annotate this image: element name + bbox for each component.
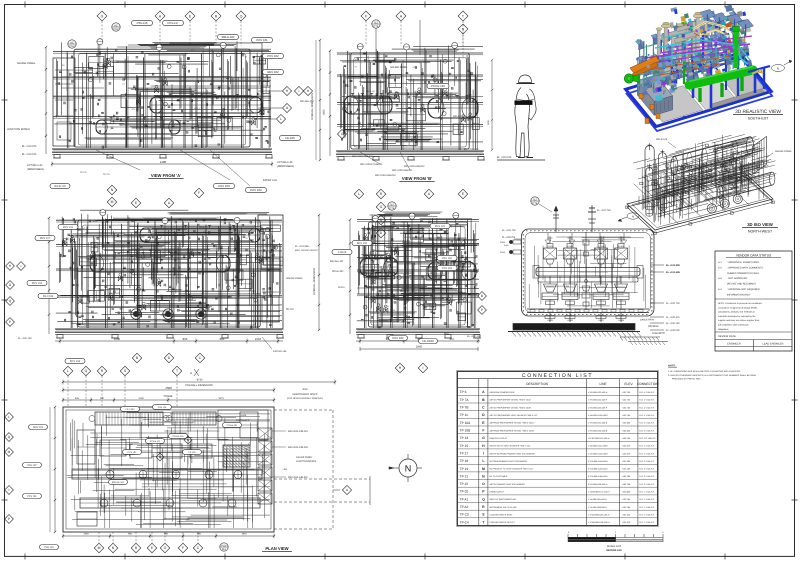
svg-text:PCV 1: PCV 1	[131, 108, 136, 111]
svg-text:TP 13: TP 13	[460, 436, 469, 440]
plan view: small callouts inside	[109, 405, 242, 485]
plan view: bottom diamonds	[94, 532, 203, 553]
svg-text:O: O	[286, 106, 289, 110]
svg-text:N2 FROM PRIMARY HEAT EXCHANGER: N2 FROM PRIMARY HEAT EXCHANGER	[490, 460, 528, 463]
svg-text:FLG. 1/2" 150# R.F.: FLG. 1/2" 150# R.F.	[639, 437, 656, 440]
ground line under figure	[497, 159, 545, 161]
svg-text:CONNECTION: CONNECTION	[637, 382, 659, 386]
section view: enclosure frame (double rounded rect)	[522, 229, 655, 316]
plan view: leader lines from top diamonds	[68, 376, 177, 406]
svg-text:VENDOR DATA STATUS: VENDOR DATA STATUS	[736, 253, 771, 257]
view A front elevation: flanges and fittings	[58, 49, 269, 148]
view A: top callout pills	[132, 20, 301, 140]
svg-text:CONCRETE: CONCRETE	[652, 332, 665, 335]
svg-text:PCV 103: PCV 103	[218, 184, 230, 188]
svg-text:N: N	[777, 67, 779, 71]
svg-text:PLAN VIEW: PLAN VIEW	[265, 546, 288, 551]
svg-text:PSV 107: PSV 107	[27, 464, 37, 467]
svg-text:4"-PA-900-1132-A03-B: 4"-PA-900-1132-A03-B	[588, 429, 608, 432]
svg-text:NORTH-WEST: NORTH-WEST	[748, 230, 773, 234]
3D ISO view: labels	[656, 138, 793, 190]
svg-text:1"-IA-900-1182-A03-H: 1"-IA-900-1182-A03-H	[588, 506, 607, 509]
plan view: left margin diamonds	[5, 413, 14, 524]
svg-text:N: N	[405, 464, 412, 474]
3D ISO view: base frame	[626, 173, 775, 234]
svg-text:C: C	[197, 546, 200, 550]
svg-text:N: N	[112, 546, 115, 550]
view B side elevation: title	[399, 176, 434, 181]
svg-text:M: M	[482, 467, 485, 471]
view A: right margin labels and lugs	[263, 161, 294, 182]
svg-text:900-P-103: 900-P-103	[656, 138, 668, 141]
svg-text:1910: 1910	[241, 533, 247, 536]
svg-text:FCV 103: FCV 103	[442, 267, 452, 270]
vendor data status box: note paragraph	[715, 299, 792, 331]
svg-text:TP A2: TP A2	[460, 505, 469, 509]
svg-text:EL.+101,985 -: EL.+101,985 -	[295, 245, 310, 248]
svg-text:PDUm-102: PDUm-102	[332, 270, 344, 273]
svg-text:materials developed or selecte: materials developed or selected by the	[718, 315, 756, 318]
3D realistic view: dense equipment mosaic mass	[642, 4, 752, 101]
svg-text:L: L	[358, 192, 360, 196]
svg-text:REV 102: REV 102	[267, 70, 279, 74]
svg-text:A: A	[346, 488, 349, 492]
svg-text:M: M	[98, 546, 101, 550]
view B: bottom cable labels	[360, 152, 425, 177]
section view: bottom stems and tags	[545, 313, 626, 323]
svg-text:A-3: A-3	[718, 277, 722, 280]
svg-text:M: M	[8, 450, 11, 454]
svg-text:900-U100-ETUB-001: 900-U100-ETUB-001	[352, 155, 373, 158]
svg-text:900: 900	[128, 533, 133, 536]
svg-text:I: I	[21, 264, 22, 268]
svg-text:: APPROVAL NOT REQUIRED.: : APPROVAL NOT REQUIRED.	[727, 288, 761, 291]
svg-text:900-E-103: 900-E-103	[453, 115, 465, 118]
svg-text:H: H	[307, 89, 310, 93]
view A front elevation: skid base	[52, 149, 273, 158]
svg-text:T: T	[462, 14, 465, 18]
svg-text:T: T	[176, 369, 178, 373]
section view: right band annotations	[640, 319, 665, 336]
grid marker diamonds above view A	[97, 11, 468, 59]
svg-text:900-U100-CJB-002: 900-U100-CJB-002	[288, 446, 309, 449]
view A front elevation: structural frame	[53, 46, 271, 148]
svg-text:PI: PI	[245, 55, 247, 58]
svg-text:R: R	[482, 505, 485, 509]
svg-text:1/2"-RG-900-1151-A03-H: 1/2"-RG-900-1151-A03-H	[588, 437, 610, 440]
svg-text:FE-101: FE-101	[188, 451, 196, 454]
vendor data status box: header	[726, 253, 781, 257]
plan view: left callout pills	[23, 425, 59, 550]
3D ISO view: mini north sketch	[618, 213, 639, 222]
svg-text:2: 2	[615, 531, 617, 534]
svg-text:3600: 3600	[323, 109, 326, 115]
svg-text:A: A	[428, 192, 431, 196]
svg-text:FT: FT	[355, 65, 358, 68]
svg-text:900-P: 900-P	[199, 226, 205, 229]
middle-left: bottom diamonds B D C	[132, 353, 205, 363]
svg-text:N2 TO CUSTOMER: N2 TO CUSTOMER	[490, 475, 508, 478]
svg-text:2"-GN-900-1145-A03-H: 2"-GN-900-1145-A03-H	[588, 468, 608, 471]
svg-text:E: E	[135, 201, 138, 205]
svg-text:PCx 104: PCx 104	[442, 257, 452, 260]
svg-text:G: G	[380, 205, 383, 209]
svg-text:1660: 1660	[114, 337, 121, 341]
view B side elevation: structural frame	[337, 51, 483, 150]
svg-text:FE-C103: FE-C103	[43, 295, 54, 298]
svg-text:+102.180: +102.180	[622, 498, 631, 501]
plan view: maintenance space dashed boundary	[274, 410, 370, 529]
svg-text:PG: PG	[62, 64, 65, 67]
svg-text:900-E-101: 900-E-101	[366, 90, 375, 93]
svg-text:900-E-101: 900-E-101	[427, 266, 436, 269]
svg-text:1220: 1220	[83, 533, 89, 536]
svg-text:4"-WN-900-1134-A03-P: 4"-WN-900-1134-A03-P	[588, 414, 609, 417]
svg-text:2"-GN-900-1146-A03-H: 2"-GN-900-1146-A03-H	[588, 475, 608, 478]
svg-text:TP 7A: TP 7A	[460, 398, 470, 402]
middle-center elevation (view D): vessel 1	[360, 256, 398, 277]
svg-text:PDUm-116: PDUm-116	[173, 435, 184, 438]
svg-text:S: S	[462, 27, 465, 31]
svg-text:EL.+102.750: EL.+102.750	[597, 209, 611, 212]
3D ISO view: piping lattice	[633, 134, 776, 224]
view B side elevation: left vertical dimension chain	[329, 50, 331, 156]
svg-text:EL.+100.370: EL.+100.370	[22, 145, 37, 148]
svg-text:FLG. 1" 150# R.F.: FLG. 1" 150# R.F.	[639, 506, 655, 509]
vendor data status box: frame	[715, 251, 792, 351]
svg-text:PCV 1: PCV 1	[194, 107, 199, 110]
svg-text:G: G	[482, 436, 485, 440]
svg-text:TP 18: TP 18	[460, 459, 469, 463]
svg-text:2. UNLESS OTHERWISE INDICATED: 2. UNLESS OTHERWISE INDICATED, ALL INSTR…	[668, 374, 757, 377]
view A: left margin labels	[7, 62, 44, 171]
svg-text:TET: TET	[374, 21, 379, 24]
middle-center elevation (view D): dimension line	[356, 337, 480, 344]
svg-text:PCV 1: PCV 1	[470, 115, 475, 118]
svg-text:PCV 104: PCV 104	[32, 282, 43, 285]
svg-text:FLG. 2" 150# R.F.: FLG. 2" 150# R.F.	[639, 460, 655, 463]
plan view: main header bands	[72, 470, 262, 508]
svg-text:P: P	[481, 308, 483, 312]
svg-text:AIR FROM PREPURIFIER VESSEL "9: AIR FROM PREPURIFIER VESSEL "900-D-101B"	[490, 429, 535, 432]
svg-text:EL.+100.750: EL.+100.750	[502, 236, 516, 239]
svg-text:PDV 107: PDV 107	[40, 237, 51, 240]
svg-text:BOLT: BOLT	[444, 332, 450, 335]
svg-text:PSV-116: PSV-116	[137, 21, 148, 25]
svg-text:GAUGE PANEL: GAUGE PANEL	[296, 456, 313, 459]
view A front elevation: micro tag labels	[62, 48, 267, 135]
svg-text:FLG. 1" 150# R.F.: FLG. 1" 150# R.F.	[639, 514, 655, 517]
svg-text:P: P	[8, 517, 10, 521]
view A front elevation: instrument bubbles	[89, 53, 267, 124]
svg-text:I: I	[423, 366, 424, 370]
3D realistic view: scattered tiny details	[636, 13, 745, 80]
3D realistic view: gray pipe stacks with tan flanges	[656, 12, 706, 62]
vertical dimension chain right of view B	[487, 59, 493, 151]
svg-text:H: H	[482, 444, 485, 448]
svg-text:EL.+102.750: EL.+102.750	[502, 229, 516, 232]
svg-text:AIR TO PRIMARY HEAT EXCHANGER: AIR TO PRIMARY HEAT EXCHANGER	[490, 483, 526, 486]
svg-text:4"-PA-900-1124-A03-P: 4"-PA-900-1124-A03-P	[588, 399, 608, 402]
middle-left elevation (view C): saddle bolt circle	[165, 311, 170, 316]
svg-text:CABLE TRAY: CABLE TRAY	[640, 319, 655, 322]
plan view: piping and equipment fill	[67, 413, 270, 529]
svg-text:PCV 101: PCV 101	[435, 225, 446, 228]
svg-text:FE-C103: FE-C103	[422, 339, 434, 343]
middle-left: EL labels	[18, 245, 318, 340]
svg-text:PI: PI	[246, 237, 248, 240]
svg-text:PTE: PTE	[532, 202, 537, 205]
middle-center: top stem with vent	[388, 202, 408, 262]
3D ISO view: small fittings	[640, 144, 760, 194]
svg-text:B: B	[481, 294, 483, 298]
svg-text:5: 5	[662, 531, 664, 534]
view B side elevation: valves	[394, 88, 472, 122]
svg-text:EATER LUG: EATER LUG	[273, 350, 287, 353]
svg-text:EL.+100,150: EL.+100,150	[18, 337, 32, 340]
svg-text:EL.+100,150: EL.+100,150	[467, 335, 481, 338]
svg-text:+100.450: +100.450	[622, 491, 631, 494]
svg-text:TP 21: TP 21	[460, 474, 469, 478]
svg-text:900-U100-AJB-003: 900-U100-AJB-003	[375, 174, 396, 177]
svg-text:TP 10A: TP 10A	[460, 421, 471, 425]
svg-text:FLG. 4" 150# R.F.: FLG. 4" 150# R.F.	[639, 414, 655, 417]
svg-text:FLG. 2" 150# R.F.: FLG. 2" 150# R.F.	[639, 483, 655, 486]
svg-text:1. ALL DIMENSIONS ARE IN MILL: 1. ALL DIMENSIONS ARE IN MILLIMETERS, EL…	[668, 370, 741, 373]
svg-text:A: A	[482, 390, 485, 394]
svg-text:PCV 1: PCV 1	[408, 261, 413, 264]
plan view: entrance bay (top right)	[218, 410, 268, 440]
svg-text:850: 850	[220, 337, 225, 341]
svg-text:1100: 1100	[487, 120, 490, 125]
svg-text:C-E103: C-E103	[338, 251, 347, 254]
svg-text:PCV 101: PCV 101	[256, 38, 268, 42]
vertical dimension chain left of middle-center view	[313, 214, 320, 331]
svg-text:N: N	[111, 188, 114, 192]
svg-text:P: P	[482, 490, 485, 494]
3D realistic view: royal blue columns	[661, 38, 738, 108]
svg-text:AIR TO PREPURIFIER VENT SILENC: AIR TO PREPURIFIER VENT SILENCER "900-X-…	[490, 414, 538, 417]
middle-center elevation (view D): instrument bubbles	[363, 241, 467, 309]
svg-text:FE-103: FE-103	[285, 136, 295, 140]
svg-text:+101.520: +101.520	[622, 514, 631, 517]
svg-text:900-E-101: 900-E-101	[735, 187, 747, 190]
svg-text:EATER LUG: EATER LUG	[263, 179, 277, 182]
svg-text:3D ISO VIEW: 3D ISO VIEW	[747, 222, 773, 227]
svg-text:H: H	[286, 89, 289, 93]
middle-left elevation (view C): instrument stems	[100, 210, 240, 257]
svg-text:L: L	[482, 459, 484, 463]
svg-text:900-U100-ETUB-001: 900-U100-ETUB-001	[360, 163, 383, 166]
svg-text:B: B	[136, 356, 139, 360]
svg-text:A-4: A-4	[718, 288, 722, 291]
svg-text:LIFTING LUG: LIFTING LUG	[27, 164, 42, 167]
svg-text:+102.750: +102.750	[622, 399, 631, 402]
svg-text:O: O	[164, 546, 167, 550]
view B: dimension texts	[352, 155, 373, 158]
svg-text:WASTE N2 FROM PRIMARY HEAT EXC: WASTE N2 FROM PRIMARY HEAT EXCHANGER	[490, 452, 536, 455]
middle-left elevation (view C): dimension line	[55, 337, 283, 344]
svg-text:calculations, analysis, test m: calculations, analysis, test methods or	[718, 311, 755, 314]
plan view: top leader diamonds row (L Q R S T)	[63, 366, 199, 376]
svg-text:900-E-101: 900-E-101	[250, 296, 259, 299]
svg-text:4180: 4180	[160, 160, 167, 164]
view B side elevation: micro tag labels	[347, 59, 475, 126]
middle-left elevation (view C): saddle bolt circle	[198, 311, 203, 316]
svg-text:900-P: 900-P	[93, 220, 99, 223]
svg-text:4"-PA-900-1131-A03-B: 4"-PA-900-1131-A03-B	[588, 422, 608, 425]
svg-text:full compliance with contractu: full compliance with contractual	[718, 324, 749, 327]
section view: lower globe valves row	[542, 276, 629, 309]
section view: left EL label	[502, 236, 521, 247]
svg-text:DRAIN OUTLET: DRAIN OUTLET	[490, 491, 505, 494]
middle-center elevation (view D): structural frame	[357, 217, 479, 328]
svg-text:PCV 102: PCV 102	[267, 54, 279, 58]
svg-text:ENTRANCE: ENTRANCE	[236, 419, 250, 422]
3D realistic view: teal lattice columns	[638, 8, 745, 96]
view B: left diamond H	[303, 86, 346, 138]
svg-text:900-U100-SJB-001: 900-U100-SJB-001	[288, 476, 308, 479]
svg-text:FLG. 1" 150# R.F.: FLG. 1" 150# R.F.	[639, 498, 655, 501]
view A: bottom leader notes	[80, 150, 250, 186]
svg-text:FLG. 4" 150# R.F.: FLG. 4" 150# R.F.	[639, 429, 655, 432]
svg-text:+102.180: +102.180	[622, 506, 631, 509]
svg-text:: NOT APPROVED: : NOT APPROVED	[727, 277, 747, 280]
graphic scale bar	[568, 531, 664, 552]
svg-text:PCV 1: PCV 1	[384, 305, 389, 308]
svg-text:EL.+100.150: EL.+100.150	[22, 153, 37, 156]
middle-center elevation (view D): instrument stems	[372, 213, 459, 259]
3D realistic view: orange walkway plank	[630, 56, 660, 77]
view A: instrument balloons	[68, 23, 120, 48]
svg-text:AIR FROM COMPRESSOR: AIR FROM COMPRESSOR	[490, 391, 515, 394]
svg-text:LG: LG	[191, 48, 194, 51]
svg-text:REVIEW DATE:: REVIEW DATE:	[718, 335, 737, 338]
svg-text:850: 850	[164, 533, 169, 536]
svg-text:(REVISE AND RESUBMIT): (REVISE AND RESUBMIT)	[727, 283, 756, 286]
grid diamonds between rows (center)	[354, 189, 468, 238]
view A front elevation: vessel 2	[96, 118, 180, 135]
svg-text:GAUGE PANEL: GAUGE PANEL	[390, 66, 408, 69]
3D ISO view: lower horizontal vessel	[717, 172, 774, 199]
middle-left elevation (view C): vessel 900-E-101	[90, 252, 230, 273]
grid diamonds between rows (left)	[107, 185, 204, 208]
svg-text:+102.750: +102.750	[622, 414, 631, 417]
svg-text:4"-PA-900-1125-A03-P: 4"-PA-900-1125-A03-P	[588, 406, 608, 409]
plan view: heat exchanger bundles (finned, top)	[89, 412, 222, 425]
svg-text:D: D	[168, 356, 171, 360]
middle-left elevation (view C): structural frame	[56, 216, 282, 328]
svg-text:1"-WDO-900-1171-A03-H: 1"-WDO-900-1171-A03-H	[588, 491, 610, 494]
3D realistic view: right blue portal and yellow valve	[748, 66, 770, 93]
middle-center elevation (view D): valves	[363, 234, 451, 313]
section view: left nozzles	[500, 240, 521, 254]
svg-text:M: M	[111, 200, 114, 204]
svg-text:N: N	[632, 215, 634, 219]
svg-text:+101.250: +101.250	[622, 483, 631, 486]
view B: top stem and balloon	[372, 20, 420, 60]
middle-center elevation (view D): vessel 2	[428, 260, 476, 281]
view B side elevation: skid base	[336, 151, 485, 160]
svg-text:SOUTH-EST: SOUTH-EST	[748, 117, 770, 121]
svg-text:ELEV.: ELEV.	[624, 382, 633, 386]
svg-text:F: F	[365, 14, 368, 18]
svg-text:CONNECTION LIST: CONNECTION LIST	[522, 373, 593, 379]
svg-text:H: H	[9, 264, 12, 268]
svg-text:FLG. 4" 150# R.F.: FLG. 4" 150# R.F.	[639, 399, 655, 402]
svg-text:900-Wm-101: 900-Wm-101	[330, 260, 344, 263]
middle-left elevation (view C): micro tag labels	[83, 220, 274, 317]
svg-text:TP 10B: TP 10B	[460, 429, 471, 433]
svg-text:+102.750: +102.750	[622, 406, 631, 409]
svg-text:TP 22: TP 22	[460, 482, 469, 486]
svg-text:116: 116	[222, 548, 227, 551]
svg-text:obligations: obligations	[718, 328, 729, 331]
svg-text:F: F	[198, 191, 200, 195]
svg-text:A: A	[400, 14, 403, 18]
view A front elevation: dimension line	[51, 160, 273, 167]
svg-text:+102.150: +102.150	[622, 437, 631, 440]
svg-text:900-P: 900-P	[390, 309, 396, 312]
vertical dimension chain between view A and view B	[311, 39, 326, 161]
svg-text:S: S	[482, 513, 485, 517]
svg-text:+101.280: +101.280	[622, 475, 631, 478]
svg-text:R: R	[101, 369, 104, 373]
svg-text:850: 850	[197, 533, 202, 536]
svg-text:PRECEDED BY PREFIX "900-".: PRECEDED BY PREFIX "900-".	[672, 378, 702, 381]
view A front elevation: vessel 900-E-101	[150, 94, 262, 114]
middle-center: bottom pills and marks	[389, 332, 482, 344]
svg-text:PTE: PTE	[373, 25, 378, 28]
middle-left elevation (view C): vessel 2	[140, 226, 260, 243]
svg-text:PCV 1: PCV 1	[417, 121, 422, 124]
view B side elevation: vessel 900-E-103	[428, 95, 478, 119]
connection list table: data rows	[458, 390, 658, 524]
svg-text:P: P	[9, 320, 11, 324]
svg-text:4"-PA-900-1123-A03-H: 4"-PA-900-1123-A03-H	[588, 391, 608, 394]
view B side elevation: flanges and fittings	[342, 53, 475, 143]
middle-left elevation (view C): instrument bubbles	[130, 228, 278, 303]
svg-text:E: E	[482, 421, 485, 425]
middle-center elevation (view D): micro tag labels	[384, 226, 453, 313]
svg-text:L: L	[67, 369, 69, 373]
svg-text:~4730: ~4730	[195, 379, 203, 382]
svg-text:900-mE-101: 900-mE-101	[112, 481, 125, 484]
svg-text:TE CA: TE CA	[80, 171, 87, 174]
svg-text:900-E-103: 900-E-103	[447, 95, 459, 98]
3D realistic view: cyan pipes	[645, 32, 750, 66]
svg-text:O: O	[9, 283, 12, 287]
svg-text:OVERALL DIMENSION: OVERALL DIMENSION	[185, 384, 212, 387]
svg-text:+101.280: +101.280	[622, 468, 631, 471]
svg-text:857: 857	[450, 337, 455, 341]
svg-text:625: 625	[75, 397, 80, 400]
3D ISO view: large horizontal exchanger shell	[671, 137, 754, 180]
section view: right elevation leaders	[650, 264, 680, 332]
svg-text:XV107: XV107	[598, 319, 604, 322]
3D realistic view: base skid rim (blue)	[626, 54, 773, 131]
svg-text:PCVm-101: PCVm-101	[227, 424, 238, 427]
svg-text:+101.280: +101.280	[622, 460, 631, 463]
plan view: PSV balloon near diamonds	[220, 543, 228, 551]
vendor data status box: review date row	[715, 332, 792, 340]
svg-text:4"-WN-900-1141-A03-H: 4"-WN-900-1141-A03-H	[588, 445, 609, 448]
svg-text:PSV: PSV	[69, 45, 74, 48]
svg-text:EL.+101.585: EL.+101.585	[666, 264, 680, 267]
view B side elevation: instrument stems	[357, 42, 458, 86]
svg-text:TP C4: TP C4	[460, 520, 469, 524]
svg-text:OVERALL DIMENSION: OVERALL DIMENSION	[311, 93, 314, 120]
